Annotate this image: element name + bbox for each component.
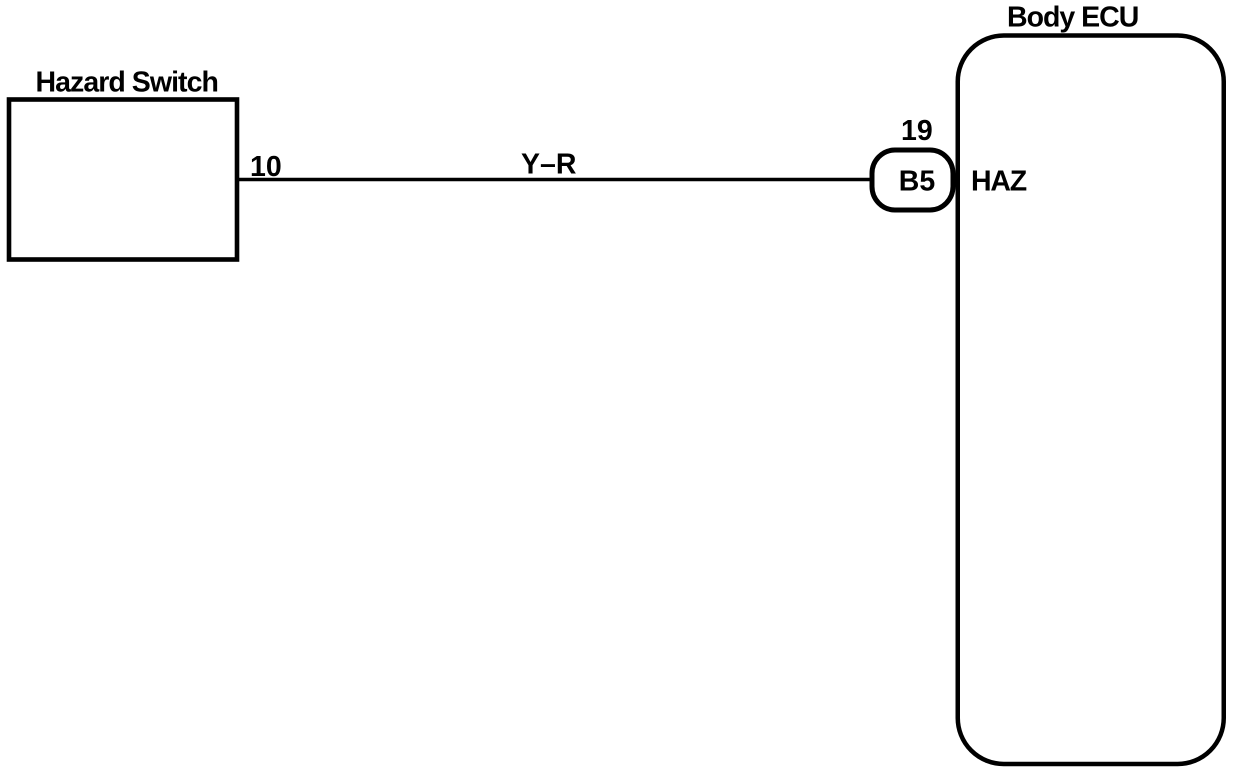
wire Y-R from pin 10 to pin B5 <box>237 178 871 182</box>
svg-text:10: 10 <box>250 151 282 183</box>
hazard switch block <box>9 100 237 260</box>
svg-text:Hazard Switch: Hazard Switch <box>36 67 218 99</box>
svg-text:B5: B5 <box>899 166 936 198</box>
svg-text:HAZ: HAZ <box>971 166 1027 198</box>
svg-text:19: 19 <box>901 115 933 147</box>
body ECU block <box>958 36 1224 765</box>
connector pin B5 oval <box>872 150 953 210</box>
svg-text:Body ECU: Body ECU <box>1007 2 1138 34</box>
svg-text:Y–R: Y–R <box>521 149 576 181</box>
